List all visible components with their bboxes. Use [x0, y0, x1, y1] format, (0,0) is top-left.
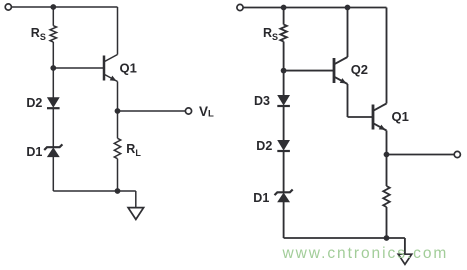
svg-text:D2: D2: [256, 139, 272, 153]
svg-text:RS: RS: [31, 26, 46, 42]
svg-text:D2: D2: [26, 96, 42, 110]
svg-text:Q2: Q2: [351, 62, 368, 77]
svg-text:RL: RL: [126, 142, 141, 158]
svg-text:D1: D1: [253, 191, 269, 205]
svg-text:Q1: Q1: [392, 109, 409, 124]
svg-text:D1: D1: [26, 145, 42, 159]
svg-text:VL: VL: [199, 104, 214, 120]
svg-text:Q1: Q1: [120, 60, 137, 75]
svg-text:D3: D3: [254, 94, 270, 108]
svg-text:RS: RS: [263, 26, 278, 42]
